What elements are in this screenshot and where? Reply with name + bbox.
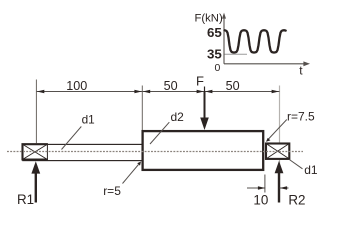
svg-text:65: 65 bbox=[207, 25, 222, 40]
graph 35-level reference line bbox=[225, 53, 248, 55]
bearing right (box with X) bbox=[266, 144, 289, 159]
svg-text:100: 100 bbox=[66, 79, 87, 93]
svg-text:50: 50 bbox=[226, 79, 240, 93]
shaft section d1 (thin left shaft) bbox=[23, 144, 143, 160]
dimension 50 (right) bbox=[205, 79, 280, 93]
label d1 (right) with leader bbox=[289, 160, 318, 178]
centerline (shaft axis, dashed) bbox=[7, 151, 303, 153]
svg-text:d1: d1 bbox=[304, 163, 318, 177]
svg-text:10: 10 bbox=[253, 193, 268, 208]
graph x-axis t bbox=[224, 61, 310, 66]
svg-text:0: 0 bbox=[215, 62, 221, 74]
label r=5 with leader arrow bbox=[103, 162, 141, 199]
svg-text:50: 50 bbox=[164, 79, 178, 93]
label d1 (left) with leader bbox=[62, 113, 95, 150]
svg-text:d2: d2 bbox=[171, 110, 185, 124]
svg-text:F(kN): F(kN) bbox=[195, 13, 223, 25]
svg-text:t: t bbox=[299, 63, 303, 77]
svg-text:R1: R1 bbox=[17, 192, 34, 207]
svg-text:d1: d1 bbox=[82, 113, 95, 127]
dimension 10 bbox=[247, 186, 289, 207]
shaft section d2 (large cylinder) bbox=[143, 131, 264, 170]
bearing left (box with X) bbox=[23, 143, 48, 160]
label r=7.5 with leader arrow bbox=[266, 110, 315, 142]
dimension 50 (left) bbox=[142, 79, 204, 93]
extension line below cylinder right edge bbox=[264, 175, 266, 193]
graph load wave F(t) bbox=[225, 30, 286, 52]
graph y-axis F(kN) bbox=[222, 13, 226, 64]
dimension 100 bbox=[36, 79, 142, 93]
svg-text:35: 35 bbox=[207, 47, 222, 62]
extension line at step (x=142.5) bbox=[141, 86, 143, 131]
force F arrow bbox=[196, 73, 209, 130]
svg-text:r=5: r=5 bbox=[103, 184, 121, 198]
svg-text:F: F bbox=[196, 73, 204, 88]
svg-text:R2: R2 bbox=[288, 193, 305, 208]
extension line left (x=37) bbox=[35, 80, 37, 144]
svg-text:r=7.5: r=7.5 bbox=[287, 110, 315, 124]
label d2 with leader bbox=[150, 110, 184, 144]
reaction R2 arrow bbox=[275, 161, 306, 208]
reaction R1 arrow bbox=[17, 161, 40, 207]
extension line right (gray, x=279.5) bbox=[279, 86, 281, 191]
